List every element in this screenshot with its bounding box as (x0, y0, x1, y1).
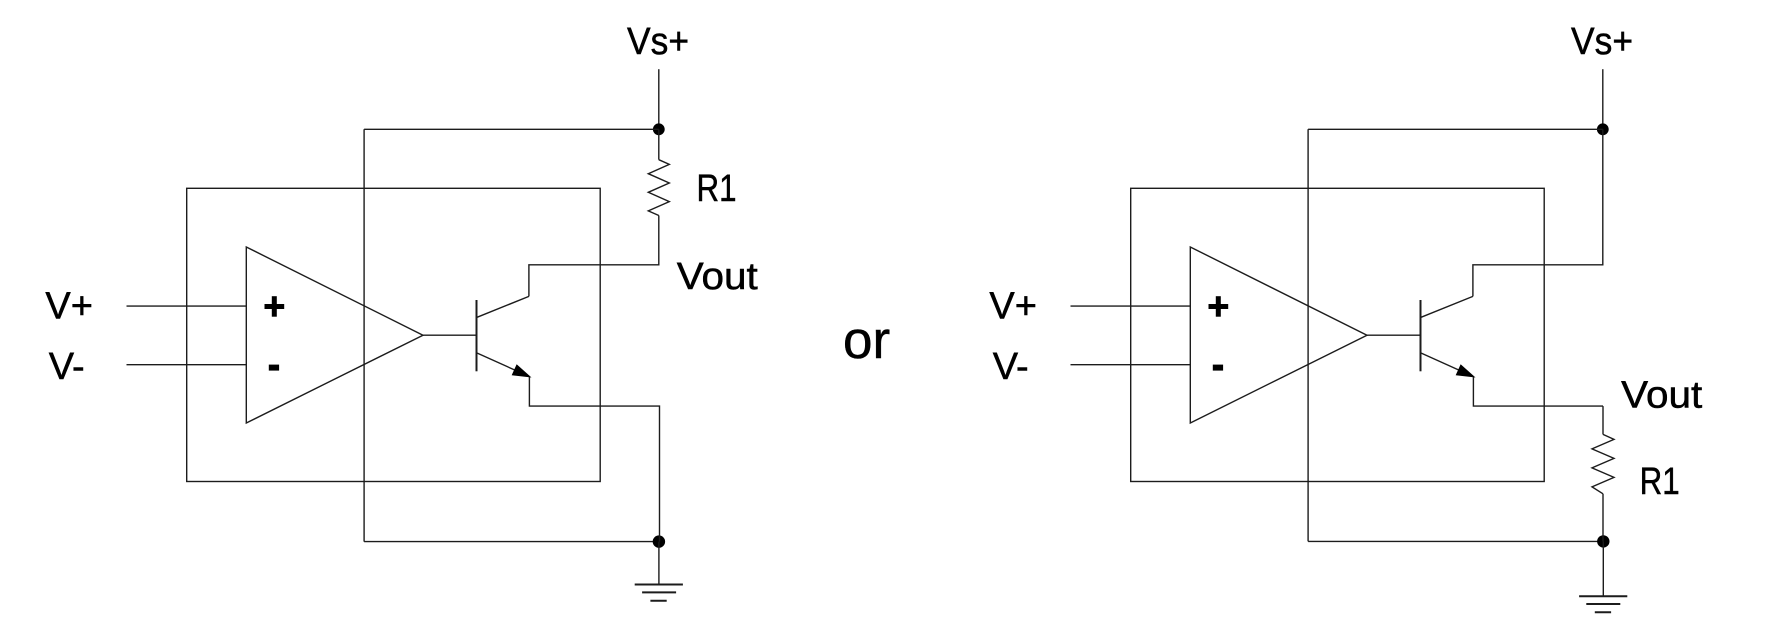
op-amp triangle U1 (left) (246, 247, 423, 423)
wire op-amp output to base (left) (423, 334, 477, 336)
wire bottom ground rail (right) (1308, 540, 1603, 542)
wire emitter to ground rail (left) (529, 377, 659, 542)
svg-text:V-: V- (993, 346, 1029, 388)
ground (left) (635, 542, 683, 601)
transistor Q1 (left) (477, 296, 530, 376)
pin + (left) (265, 296, 285, 317)
wire top supply rail (left) (364, 128, 659, 130)
svg-text:Vs+: Vs+ (627, 21, 689, 63)
wire Vs+ lead (left) (658, 69, 660, 129)
op-amp triangle U2 (right) (1190, 247, 1367, 423)
svg-text:V+: V+ (45, 286, 93, 328)
svg-text:R1: R1 (1640, 461, 1680, 503)
node Vs+ junction dot (left) (653, 123, 665, 135)
pin + (right) (1209, 296, 1229, 317)
svg-text:Vout: Vout (1621, 374, 1702, 416)
node ground junction dot (left) (653, 535, 665, 547)
svg-text:R1: R1 (697, 168, 737, 210)
resistor R1 (right) (1592, 406, 1614, 541)
ground (right) (1579, 541, 1627, 612)
svg-text:or: or (843, 311, 890, 370)
op-amp package box U1 (left) (187, 188, 601, 481)
svg-text:Vout: Vout (677, 256, 758, 298)
pin - (left) (269, 365, 279, 371)
wire supply left vertical (left) (363, 129, 365, 541)
svg-text:Vs+: Vs+ (1571, 21, 1633, 63)
wire collector to Vs+ (right) (1473, 129, 1603, 296)
wire V+ input (right) (1071, 305, 1191, 307)
node ground junction dot (right) (1597, 535, 1609, 547)
wire V- input (right) (1071, 364, 1191, 366)
wire collector to Vout node (left) (529, 265, 660, 297)
wire emitter to Vout node (right) (1473, 377, 1603, 407)
wire bottom ground rail (left) (364, 541, 659, 543)
wire Vs+ lead (right) (1602, 69, 1604, 129)
wire top supply rail (right) (1308, 128, 1603, 130)
wire supply left vertical (right) (1307, 129, 1309, 541)
wire V- input (left) (127, 364, 247, 366)
op-amp package box U2 (right) (1131, 188, 1545, 481)
wire V+ input (left) (127, 305, 247, 307)
node Vs+ junction dot (right) (1597, 123, 1609, 135)
transistor Q2 (right) (1421, 296, 1474, 376)
svg-text:V-: V- (49, 346, 85, 388)
wire op-amp output to base (right) (1367, 334, 1421, 336)
svg-text:V+: V+ (989, 286, 1037, 328)
pin - (right) (1213, 365, 1223, 371)
resistor R1 (left) (648, 129, 669, 264)
